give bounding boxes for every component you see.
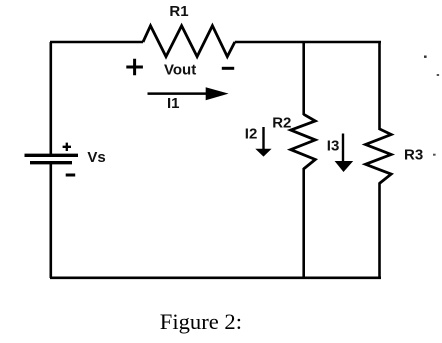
battery minus sign [66, 174, 76, 177]
wire: R3 branch lower [378, 183, 381, 279]
wire: R2 branch lower [302, 168, 305, 278]
svg-text:R2: R2 [272, 114, 291, 131]
wire: bottom rail [50, 276, 381, 279]
wire: R3 branch upper [378, 42, 381, 130]
wire: R2 branch upper [302, 42, 305, 115]
svg-text:Vs: Vs [87, 149, 105, 166]
wire: top-left horizontal from left rail to R1 [50, 41, 143, 44]
resistor R3 (vertical zigzag) [366, 129, 392, 184]
current arrow I3 (head) [335, 161, 354, 172]
battery plus sign [63, 143, 71, 151]
svg-text:I1: I1 [167, 95, 180, 112]
battery Vs: short negative plate [30, 161, 72, 164]
current arrow I2 (head) [255, 149, 271, 157]
stray speck 2 [437, 74, 439, 76]
wire: top middle from R1 to node A [235, 41, 304, 44]
current arrow I3 (line) [342, 134, 344, 163]
svg-text:I3: I3 [327, 138, 340, 155]
Vout plus sign [126, 59, 143, 75]
current arrow I1 (line) [148, 92, 208, 95]
wire: left rail lower (Vs bottom to bottom wire) [49, 164, 52, 278]
stray speck 1 [424, 56, 427, 58]
current arrow I1 (head) [206, 87, 229, 100]
wire: left rail upper (Vs top to top wire) [49, 42, 52, 155]
resistor R1 (horizontal zigzag) [143, 26, 235, 57]
resistor R2 (vertical zigzag) [291, 114, 316, 169]
svg-text:I2: I2 [245, 126, 258, 143]
svg-text:Figure 2:: Figure 2: [160, 309, 242, 334]
svg-text:Vout: Vout [164, 62, 196, 79]
current arrow I2 (line) [262, 127, 264, 150]
stray speck 3 [433, 154, 436, 156]
svg-text:R1: R1 [169, 3, 188, 20]
svg-text:R3: R3 [404, 147, 423, 164]
battery Vs: long positive plate [25, 154, 79, 157]
Vout minus sign [222, 67, 234, 70]
wire: top right from node A to R3 branch [304, 41, 381, 44]
